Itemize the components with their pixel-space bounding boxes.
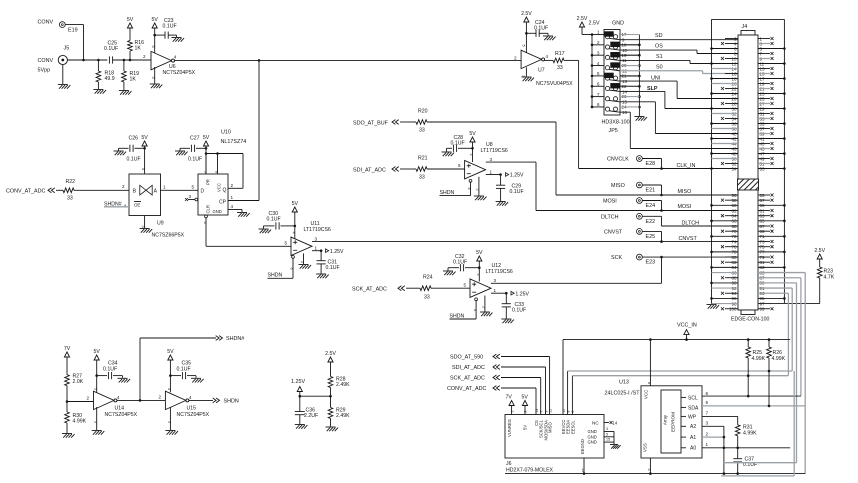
svg-text:MOSI: MOSI	[678, 204, 692, 210]
svg-text:CP: CP	[219, 200, 227, 206]
label CLK_IN	[677, 163, 696, 169]
reference 1.25V at U11 pin1	[312, 246, 344, 255]
signal S1 wire	[620, 54, 738, 64]
svg-text:33: 33	[419, 175, 425, 181]
net SHDN# output	[216, 336, 245, 343]
svg-text:GND: GND	[213, 209, 222, 214]
svg-text:5V: 5V	[469, 131, 476, 137]
svg-text:MISO: MISO	[548, 422, 553, 433]
svg-text:VCC: VCC	[644, 390, 649, 399]
svg-text:2.49K: 2.49K	[336, 382, 350, 388]
U13 A0 wire	[702, 442, 790, 449]
svg-text:HD3X8-100: HD3X8-100	[602, 120, 630, 126]
svg-text:JP5: JP5	[609, 128, 618, 134]
svg-text:OS: OS	[655, 44, 663, 50]
J4 pin row 72/71	[710, 234, 786, 239]
resistor R24 33	[420, 275, 433, 301]
JP5 row 1 pins 1/9/17	[592, 30, 627, 43]
svg-text:E23: E23	[646, 260, 656, 266]
wire SCK to J4	[660, 256, 738, 259]
J4 pin row 80/79	[725, 255, 774, 260]
svg-text:R22: R22	[66, 179, 76, 185]
JP5 left supply bus	[591, 33, 594, 108]
signal S0 wire	[620, 64, 738, 73]
svg-text:SDI_AT_ADC: SDI_AT_ADC	[353, 167, 386, 173]
svg-text:0.1UF: 0.1UF	[163, 24, 177, 30]
ground at R30	[62, 434, 75, 438]
svg-text:SD: SD	[655, 33, 663, 39]
analog switch U9 NC7SZ66P5X	[129, 174, 185, 239]
resistor R21 33	[416, 156, 428, 181]
J4 pin row 60/59	[710, 203, 786, 208]
label GND column JP5	[612, 21, 624, 27]
svg-text:SDO_AT_BUF: SDO_AT_BUF	[353, 120, 389, 126]
svg-text:NC7SZ04P5X: NC7SZ04P5X	[163, 70, 196, 76]
capacitor C34 0.1UF at U14	[97, 361, 123, 380]
J6 NC pin 14	[592, 421, 618, 426]
J4 pin row 14/13	[712, 66, 774, 71]
svg-text:6: 6	[706, 391, 709, 396]
J4 pin row 6/5	[710, 46, 786, 51]
net SDO_AT_BUF	[353, 120, 416, 127]
J4 pin row 10/9	[721, 56, 774, 61]
J4 pin row 24/23	[710, 91, 786, 96]
J4 pin row 78/77	[710, 250, 786, 255]
inverter U15 NC7SZ04P5X	[165, 391, 209, 423]
power 5V at J6	[522, 394, 529, 414]
signal SHDN at U11	[268, 256, 295, 279]
wire CONV to U10 CP pin1	[228, 60, 259, 200]
svg-text:0.1UF: 0.1UF	[451, 140, 465, 146]
test point E19 (CONV)	[38, 20, 78, 34]
svg-text:R17: R17	[555, 51, 565, 57]
svg-text:R24: R24	[423, 275, 433, 281]
ground at C34	[118, 376, 131, 383]
ground at C30	[259, 226, 272, 233]
svg-text:2.5V: 2.5V	[814, 248, 825, 254]
capacitor C33 0.1UF	[502, 293, 526, 318]
svg-text:2: 2	[159, 394, 162, 399]
svg-text:U9: U9	[157, 221, 164, 227]
svg-text:5Vpp: 5Vpp	[38, 68, 51, 74]
svg-text:MISO: MISO	[611, 183, 625, 189]
connector J5 (BNC CONV 5Vpp)	[38, 46, 70, 74]
net SCK_AT_ADC	[352, 286, 420, 293]
U13 WP wire to R31	[702, 411, 738, 425]
svg-text:5V: 5V	[522, 394, 529, 400]
svg-text:DLTCH: DLTCH	[601, 214, 619, 220]
svg-text:R20: R20	[418, 109, 428, 115]
ground at JP5	[634, 117, 647, 121]
svg-text:MOSI: MOSI	[603, 199, 617, 205]
ground at R29	[326, 427, 339, 431]
svg-text:R25: R25	[753, 350, 763, 356]
resistor R19 1K	[122, 60, 140, 90]
svg-text:0.1UF: 0.1UF	[267, 217, 281, 223]
svg-text:0.1UF: 0.1UF	[127, 156, 141, 162]
svg-text:5: 5	[464, 282, 467, 287]
wire U12 output to SCK	[491, 257, 662, 283]
svg-text:1: 1	[510, 410, 514, 412]
svg-text:5: 5	[285, 241, 288, 246]
J4 pin row 50/49	[712, 156, 774, 161]
power 7V at J6	[506, 394, 515, 414]
svg-text:LT1719CS6: LT1719CS6	[486, 269, 513, 275]
svg-text:SDO_AT_590: SDO_AT_590	[450, 355, 483, 361]
svg-text:4: 4	[291, 232, 295, 234]
svg-text:3: 3	[494, 278, 497, 283]
svg-text:NC7SZ04P5X: NC7SZ04P5X	[177, 412, 210, 418]
svg-text:NC7SVU04P5X: NC7SVU04P5X	[536, 81, 573, 87]
JP5 row 5 pins 5/13/21	[592, 71, 627, 84]
svg-text:10: 10	[562, 409, 566, 413]
power 5V at U6	[152, 17, 159, 53]
J4 pin row 100/99	[721, 307, 774, 312]
resistor R30 4.99K	[65, 400, 87, 433]
test point E25 (CNVST)	[604, 229, 662, 242]
label U10 NL17SZ74	[221, 130, 247, 146]
svg-text:0.1UF: 0.1UF	[103, 367, 117, 373]
svg-text:1: 1	[494, 288, 497, 293]
svg-text:GND: GND	[612, 21, 624, 27]
resistor R28 2.49K	[328, 377, 350, 397]
svg-text:CONV_AT_ADC: CONV_AT_ADC	[447, 386, 487, 392]
wire R21 to U8 input	[427, 163, 465, 169]
svg-text:0.1UF: 0.1UF	[326, 265, 340, 271]
svg-text:SHDN#: SHDN#	[226, 336, 244, 342]
svg-text:5: 5	[151, 46, 155, 48]
wire U13 VCC pin8	[647, 338, 652, 385]
power VCC_IN	[677, 323, 697, 341]
J6 EEGND pin 12	[581, 458, 585, 474]
svg-text:7V: 7V	[506, 394, 513, 400]
svg-text:CONV_AT_ADC: CONV_AT_ADC	[6, 188, 46, 194]
test point E23 (SCK)	[611, 254, 662, 266]
capacitor C28 0.1UF at U8	[447, 135, 473, 152]
J4 pin row 84/83	[710, 265, 786, 270]
label CNVST at J4	[679, 236, 698, 242]
ground at C36	[295, 425, 308, 429]
capacitor C23 0.1UF at U6	[155, 18, 177, 39]
svg-text:S0: S0	[656, 64, 663, 70]
svg-text:MISO: MISO	[678, 189, 692, 195]
inverter U14 NC7SZ04P5X	[94, 391, 138, 423]
J6 EEVCC wire to VCC_IN rail	[563, 340, 790, 415]
J4 pin row 36/35	[710, 121, 786, 126]
J4 pin row 98/97	[712, 301, 775, 306]
test point E24 (MOSI)	[603, 198, 662, 211]
svg-text:5: 5	[706, 400, 709, 405]
J4 pin row 48/47	[710, 151, 786, 156]
svg-text:2: 2	[143, 54, 146, 59]
svg-text:3: 3	[606, 427, 608, 431]
J4 pin row 86/85	[712, 270, 806, 275]
signal OS wire	[620, 44, 738, 54]
svg-text:33: 33	[419, 128, 425, 134]
svg-text:8: 8	[566, 411, 570, 413]
U10 pin4 GND	[228, 204, 250, 217]
ground at C24	[543, 33, 556, 40]
svg-text:5V: 5V	[141, 135, 148, 141]
svg-text:0.1UF: 0.1UF	[534, 26, 548, 32]
resistor R31 4.99K	[735, 424, 757, 448]
J4 pin row 62/61	[725, 208, 774, 213]
svg-text:E28: E28	[646, 161, 656, 167]
svg-text:SHDN: SHDN	[440, 190, 455, 196]
resistor R17 33	[545, 51, 565, 71]
comparator U12 LT1719CS6	[470, 263, 513, 297]
wire E19 to main node	[65, 25, 83, 60]
svg-text:5: 5	[521, 45, 525, 47]
J4 pin row 34/33	[721, 116, 774, 121]
svg-text:SDA: SDA	[688, 405, 699, 411]
ground at U8 pin2	[474, 177, 487, 200]
svg-text:3: 3	[189, 194, 192, 199]
svg-text:1.25V: 1.25V	[515, 291, 529, 297]
svg-text:4: 4	[469, 154, 473, 156]
svg-text:OE: OE	[134, 203, 140, 208]
net SDI_AT_ADC at J6	[452, 365, 546, 415]
resistor R23 4.7K	[814, 248, 834, 304]
net SHDN output	[189, 398, 239, 405]
signal SHDN at U12	[450, 298, 478, 319]
capacitor C32 0.1UF at U12	[448, 254, 479, 272]
svg-text:2: 2	[476, 189, 480, 191]
ground at U11 pin2	[299, 253, 312, 268]
svg-text:13: 13	[535, 409, 539, 413]
J4 pin row 42/41	[710, 136, 786, 141]
svg-text:EDGE-CON-100: EDGE-CON-100	[731, 317, 769, 323]
wire U8 output to MOSI	[486, 157, 738, 212]
J4 pin row 20/19	[712, 81, 774, 86]
svg-text:2.5V: 2.5V	[325, 351, 336, 357]
J4 pin row 44/43	[712, 141, 774, 146]
wire J4 pin85 routing	[804, 273, 806, 474]
svg-text:C27: C27	[190, 135, 200, 141]
U13 A2 wire	[702, 421, 724, 474]
svg-text:SCK: SCK	[611, 255, 622, 261]
ground at U7	[521, 67, 534, 81]
J4 pin row 16/15	[725, 71, 774, 76]
svg-text:1: 1	[706, 442, 709, 447]
svg-text:3: 3	[706, 421, 709, 426]
signal SLP wire	[620, 86, 738, 108]
svg-text:GND: GND	[588, 434, 597, 439]
ground at R18	[93, 90, 106, 94]
power 5V at U15	[167, 349, 174, 392]
JP5 row 3 pins 3/11/19	[592, 50, 627, 63]
svg-text:SHDN: SHDN	[224, 399, 239, 405]
net SDI_AT_ADC	[353, 167, 416, 174]
wire R24 to U12 input	[431, 282, 470, 288]
svg-text:2: 2	[87, 396, 90, 401]
svg-text:NC7SZ66P5X: NC7SZ66P5X	[152, 233, 185, 239]
wire U6 output to U7 and U10	[175, 59, 522, 62]
svg-text:C26: C26	[129, 135, 139, 141]
svg-text:VCC: VCC	[217, 183, 222, 192]
power 5V at R16	[127, 17, 134, 28]
power 5V at U11	[291, 201, 298, 240]
svg-text:U15: U15	[187, 405, 197, 411]
ground at C29	[496, 202, 509, 206]
capacitor C37 0.1UF	[733, 448, 757, 475]
J6 EESDA wire	[568, 371, 793, 415]
power 5V at U14	[93, 349, 100, 392]
J4 pin row 66/65	[710, 219, 786, 224]
svg-text:4: 4	[117, 395, 120, 400]
svg-text:6: 6	[290, 268, 294, 270]
svg-text:CNVST: CNVST	[604, 229, 623, 235]
ground at U12 pin2	[480, 296, 493, 317]
svg-text:5V: 5V	[127, 17, 134, 23]
signal SHDN at U8	[440, 179, 472, 196]
svg-text:2: 2	[514, 56, 517, 61]
svg-text:E21: E21	[646, 188, 656, 194]
power 2.5V at JP5	[577, 16, 592, 35]
J4 pin row 88/87	[721, 276, 801, 281]
svg-text:0.1UF: 0.1UF	[188, 156, 202, 162]
wire J5 to C25	[67, 59, 107, 62]
svg-text:E22: E22	[646, 219, 656, 225]
svg-text:6: 6	[467, 188, 471, 190]
connector J6 HD2X7-079-MOLEX body	[505, 415, 604, 474]
svg-text:Q: Q	[223, 188, 227, 194]
wire J4 pin89 routing	[796, 283, 798, 463]
wire R17 to CLK_IN	[564, 60, 738, 169]
JP5 GND bus	[638, 35, 641, 117]
JP5 right pin wires to GND bus	[620, 35, 639, 107]
svg-text:0.1UF: 0.1UF	[512, 308, 526, 314]
wire U10 to U11 input	[206, 241, 291, 247]
ground at C35	[191, 376, 204, 383]
svg-text:S1: S1	[656, 54, 663, 60]
J4 pin row 52/51	[721, 161, 774, 166]
svg-text:SDI_AT_ADC: SDI_AT_ADC	[452, 365, 485, 371]
svg-text:4.99K: 4.99K	[73, 419, 87, 425]
svg-text:1: 1	[490, 169, 493, 174]
svg-text:49.9: 49.9	[105, 76, 115, 82]
reference 1.25V at U8 pin1	[486, 169, 524, 178]
svg-text:2.49K: 2.49K	[336, 413, 350, 419]
J4 pin row 68/67	[725, 224, 774, 229]
svg-text:GND: GND	[588, 440, 597, 445]
svg-text:CONV: CONV	[38, 58, 54, 64]
ground at U6	[150, 67, 163, 88]
svg-text:1.25V: 1.25V	[330, 249, 344, 255]
svg-text:0.1UF: 0.1UF	[104, 46, 118, 52]
U10 pin7 PR wire	[203, 154, 207, 175]
wire J4 pin87 routing	[800, 278, 802, 396]
svg-text:8: 8	[647, 382, 651, 384]
connector J4 body	[738, 24, 758, 315]
svg-text:5: 5	[458, 163, 461, 168]
JP5 row 7 pins 7/15/23	[592, 92, 627, 105]
svg-text:U14: U14	[115, 405, 125, 411]
wire C25 to U6 input	[113, 54, 151, 61]
resistor R20 33	[416, 109, 428, 134]
svg-text:2: 2	[122, 184, 125, 189]
svg-text:4.99K: 4.99K	[743, 430, 757, 436]
svg-text:5V: 5V	[292, 201, 299, 207]
bottom ground rail	[505, 472, 805, 475]
svg-text:Array: Array	[663, 414, 668, 425]
JP5 row8 wire to J4	[620, 112, 738, 148]
J4 pin row 40/39	[725, 131, 774, 136]
label EDGE-CON-100	[731, 317, 769, 323]
ground at C26	[114, 148, 127, 155]
ground at U14	[92, 407, 105, 435]
U10 pin3 Qbar no-connect	[185, 194, 198, 201]
svg-text:5V: 5V	[167, 349, 174, 355]
svg-text:2: 2	[300, 261, 304, 263]
ground at J5	[58, 65, 71, 89]
ground at C23	[172, 35, 185, 42]
svg-text:1: 1	[163, 184, 166, 189]
svg-text:SCL: SCL	[688, 395, 698, 401]
resistor R18 49.9	[96, 60, 115, 89]
svg-text:EEGND: EEGND	[580, 439, 585, 454]
J4 polarization key	[738, 179, 759, 190]
svg-text:2.5V: 2.5V	[589, 21, 600, 27]
JP5 row 4 pins 4/12/20	[592, 61, 627, 74]
svg-text:U10: U10	[221, 130, 231, 136]
svg-text:5V: 5V	[476, 250, 483, 256]
J4 pin row 22/21	[721, 86, 774, 91]
svg-text:PR: PR	[206, 179, 211, 185]
net CONV_AT_ADC	[6, 188, 63, 194]
svg-text:A2: A2	[690, 424, 696, 430]
svg-text:8: 8	[214, 171, 218, 173]
J6 internal pin labels	[507, 409, 585, 454]
svg-text:2.0K: 2.0K	[73, 379, 84, 385]
capacitor C26 0.1UF at U9	[119, 135, 145, 162]
test point E28 (CNVCLK)	[607, 156, 662, 169]
reference 1.25V at U12 pin1	[491, 288, 529, 297]
svg-text:A1: A1	[690, 435, 696, 441]
U13 SCL wire	[702, 391, 801, 398]
svg-text:4: 4	[476, 274, 480, 276]
svg-text:CLK_IN: CLK_IN	[677, 163, 696, 169]
svg-text:WP: WP	[688, 414, 697, 420]
wire R20 to MISO pin	[427, 122, 738, 196]
J4 pin row 26/25	[725, 96, 774, 101]
J4 pin row 76/75	[721, 245, 774, 250]
resistor R16 1K	[128, 28, 144, 60]
svg-text:3: 3	[490, 157, 493, 162]
svg-text:SCK_AT_ADC: SCK_AT_ADC	[352, 287, 387, 293]
label HD3X8-100	[602, 120, 630, 126]
svg-text:4: 4	[231, 204, 234, 209]
wire divider to U14	[67, 396, 94, 402]
wire U11 output CNVST	[312, 236, 738, 243]
signal SHDN# at U9 OE	[104, 201, 129, 208]
capacitor C25 0.1UF	[104, 40, 118, 63]
signal UNI wire	[620, 76, 738, 99]
svg-text:VCC_IN: VCC_IN	[677, 323, 697, 329]
svg-text:J4: J4	[742, 24, 748, 30]
ground at C27	[175, 148, 188, 155]
svg-text:E19: E19	[68, 28, 78, 34]
svg-text:SHDN: SHDN	[450, 313, 465, 319]
svg-text:0.1UF: 0.1UF	[510, 189, 524, 195]
svg-text:EEPROM: EEPROM	[671, 412, 676, 432]
svg-text:U13: U13	[619, 380, 629, 386]
svg-text:4: 4	[546, 54, 549, 59]
wire SHDN# to top	[140, 338, 216, 400]
power 7V at R27	[64, 346, 71, 375]
svg-text:R26: R26	[773, 350, 783, 356]
J4 pin row 64/63	[721, 213, 774, 218]
